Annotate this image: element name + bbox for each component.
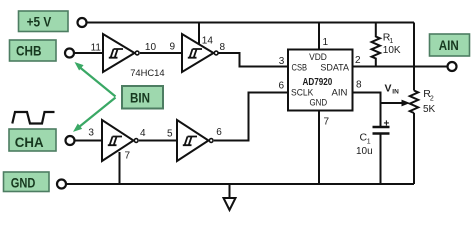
svg-text:CHB: CHB (16, 43, 42, 59)
svg-text:7: 7 (125, 151, 131, 162)
svg-text:SCLK: SCLK (291, 88, 313, 98)
IC U2 AD7920 (288, 50, 353, 111)
wire VIN wiper arm to R2 (381, 102, 404, 104)
svg-text:7: 7 (324, 116, 330, 127)
svg-text:9: 9 (170, 42, 176, 53)
svg-text:74HC14: 74HC14 (130, 67, 164, 78)
svg-text:1: 1 (389, 38, 393, 45)
inverter U1D 74HC14 (177, 120, 213, 161)
svg-text:+5 V: +5 V (27, 14, 52, 30)
node box AIN (430, 34, 470, 56)
CHA square-wave glyph (12, 112, 54, 124)
BIN arrow to CHA (73, 98, 116, 132)
node box GND (4, 172, 50, 192)
svg-text:6: 6 (279, 81, 285, 92)
terminal GND (57, 180, 66, 189)
svg-text:AIN: AIN (332, 88, 348, 98)
svg-text:1: 1 (323, 37, 329, 48)
svg-text:8: 8 (220, 42, 226, 53)
terminal +5V (78, 18, 87, 27)
svg-text:3: 3 (279, 56, 285, 67)
wire CHA to U1C input (75, 140, 103, 142)
wire +5V rail right drop to R2 (413, 23, 415, 91)
svg-text:CSB: CSB (292, 63, 308, 73)
inverter U1A 74HC14 (103, 34, 139, 72)
BIN arrow to CHB (75, 62, 116, 97)
svg-text:10u: 10u (356, 146, 373, 157)
ground symbol (224, 184, 236, 210)
svg-text:VDD: VDD (309, 52, 327, 62)
svg-text:4: 4 (140, 128, 146, 139)
terminal CHA (66, 136, 75, 145)
wire R2 bottom to ground rail (413, 113, 415, 184)
svg-text:V: V (385, 83, 392, 95)
svg-text:BIN: BIN (130, 89, 150, 105)
wire pin1 drop to AD7920 VDD (318, 23, 320, 51)
wire U1C output to U1D input (139, 140, 177, 142)
resistor R1 (372, 23, 401, 67)
wiper arrowhead (402, 100, 411, 107)
resistor R2 (pot) (410, 88, 436, 115)
wire SDATA pin2 to AIN terminal (352, 66, 448, 68)
svg-text:GND: GND (11, 175, 36, 191)
wire top +5V rail (87, 22, 415, 24)
capacitor C1 (356, 118, 390, 157)
svg-text:AD7920: AD7920 (303, 77, 333, 88)
svg-text:2: 2 (355, 55, 361, 66)
svg-text:3: 3 (88, 127, 94, 138)
svg-text:5K: 5K (423, 104, 436, 115)
svg-text:+: + (384, 118, 390, 129)
wire U1C pin7 to ground rail (119, 152, 121, 184)
svg-text:10K: 10K (383, 45, 401, 56)
svg-text:AIN: AIN (439, 37, 459, 53)
svg-text:8: 8 (356, 80, 362, 91)
wire C1 bottom to ground rail (380, 134, 382, 185)
svg-text:GND: GND (309, 98, 327, 108)
svg-text:IN: IN (392, 89, 399, 96)
svg-text:10: 10 (145, 42, 157, 53)
svg-text:CHA: CHA (15, 134, 44, 150)
wire U1A output to U1B input (140, 52, 182, 54)
wire U1D output pin6 to SCLK pin6 (214, 93, 289, 141)
svg-text:1: 1 (367, 139, 371, 146)
svg-text:11: 11 (91, 42, 102, 53)
wire CHB to U1A input (74, 52, 103, 54)
svg-text:14: 14 (202, 36, 214, 47)
node box BIN (122, 86, 163, 109)
wire U1B output pin8 to CSB pin3 (216, 53, 289, 67)
svg-text:6: 6 (216, 127, 222, 138)
terminal AIN (448, 62, 457, 71)
wire AD7920 pin7 GND drop (318, 111, 320, 184)
wire bottom ground rail (67, 183, 415, 185)
wire AD7920 pin8 AIN to VIN node (352, 93, 381, 128)
node box +5 V (19, 11, 69, 32)
terminal CHB (65, 49, 74, 58)
inverter U1B 74HC14 (182, 34, 218, 72)
svg-text:SDATA: SDATA (320, 63, 349, 73)
node box CHA (9, 129, 56, 151)
wire pin14 drop to U1B (198, 23, 200, 46)
svg-text:5: 5 (167, 129, 173, 140)
svg-text:2: 2 (430, 96, 434, 103)
node box CHB (10, 40, 57, 61)
inverter U1C 74HC14 (102, 120, 138, 161)
